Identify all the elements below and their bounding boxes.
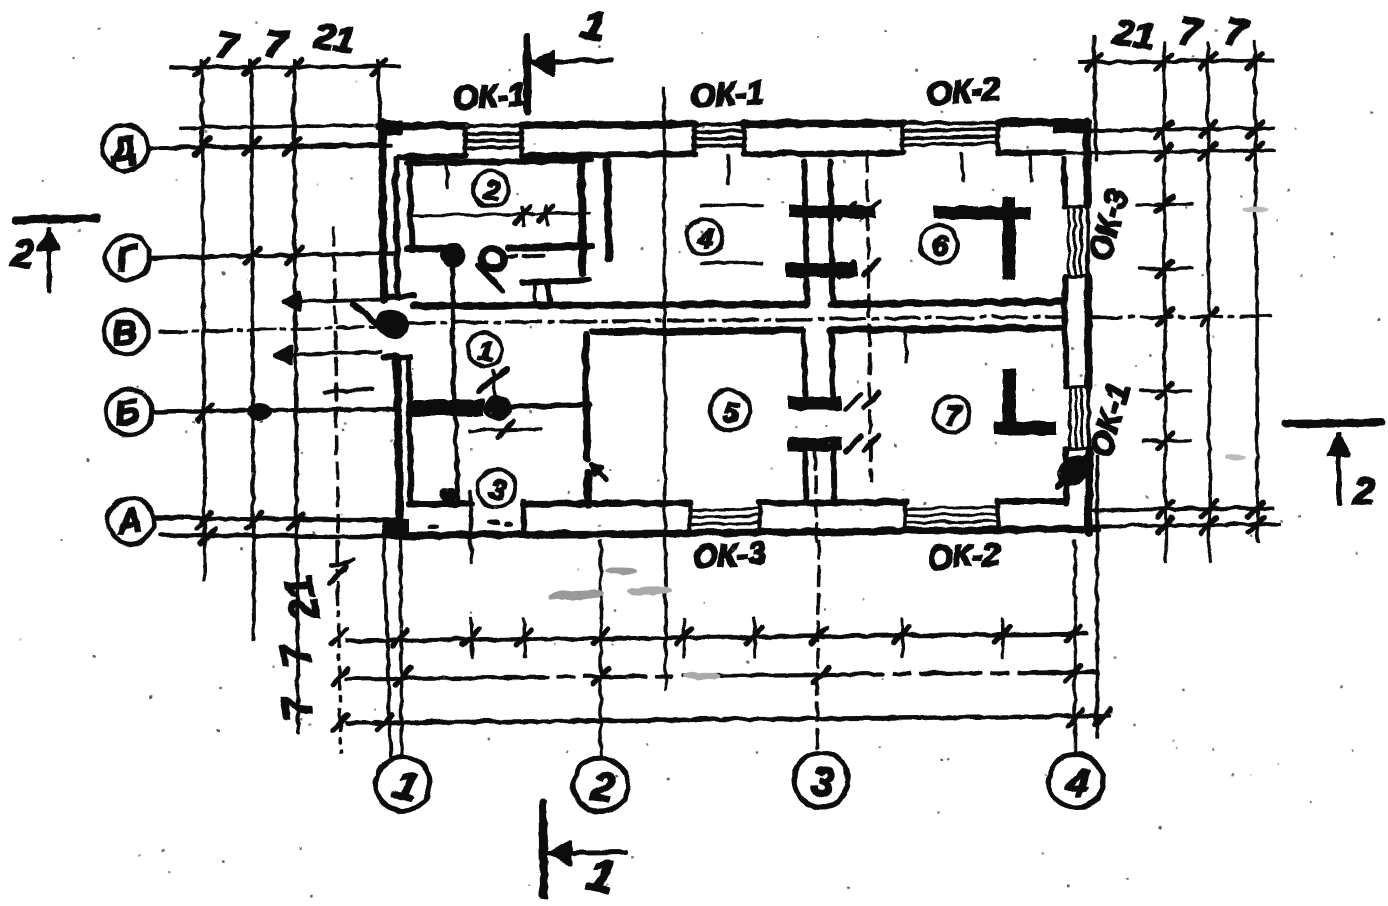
extension stub x=470 through bottom wall [469, 490, 471, 562]
rooms 5/7 flue bar 1 [788, 396, 840, 409]
bottom-left chain ticks [329, 566, 344, 581]
svg-text:А: А [113, 501, 144, 542]
tick rows right partition lower [844, 393, 859, 408]
building top-left corner block [377, 120, 401, 134]
entry door leaf (diagonal) [352, 303, 382, 329]
interior dim leader left y=352 [274, 351, 380, 354]
room 1 door hinge blob [484, 395, 510, 419]
ticks on row Г leader [243, 247, 258, 262]
bottom inner wall face segments [408, 500, 470, 506]
rooms 4/6 flue bar 2 [786, 262, 856, 276]
room 2 door leaf (diagonal) [478, 265, 502, 290]
room 2 left inner wall [409, 163, 411, 250]
left inner wall face lower [408, 358, 410, 500]
extension line x=201 [201, 60, 204, 578]
stub wall below room 2 [522, 279, 588, 281]
axis circle 3 (bottom) [793, 752, 847, 806]
svg-text:ОК-1: ОК-1 [689, 73, 764, 114]
room label 2 (circled) [472, 170, 508, 206]
svg-text:Б: Б [113, 392, 141, 432]
section mark 2 left (cut line, arrow, label) [15, 217, 96, 219]
left outer wall face lower [396, 356, 399, 533]
room label 3 (circled) [477, 468, 515, 506]
room label 7 (circled) [933, 395, 969, 431]
room 3 top wall right part [510, 404, 588, 406]
svg-text:ОК-2: ОК-2 [925, 70, 1001, 111]
column axis 3 vertical wire (dashed) [816, 540, 818, 751]
room 1 door leaf (diagonal) [478, 368, 506, 390]
top outer wall face segments (thick between windows) [378, 121, 465, 129]
axis row Д leader wire [147, 144, 390, 147]
axis circle В [103, 309, 147, 353]
window ОК-3 right (y 205-276) glazing lines [1067, 206, 1069, 276]
axis circle Г [105, 235, 149, 279]
bottom wall blob near room 3 [440, 487, 456, 501]
rooms 4/6 flue bar 1 [788, 205, 874, 217]
entry opening top jamb stub [384, 295, 413, 296]
window ОК-1 right (y 385-448) glazing lines [1068, 386, 1070, 448]
dash-dot extension line x=335 [333, 228, 337, 545]
right outer wall face segments [1083, 120, 1091, 205]
window ОК-2 bottom (x 905-997) glazing lines [903, 506, 998, 508]
right leader y=440 (window OK-1 bottom edge) [1142, 439, 1190, 442]
middle wall upper face segments [413, 303, 805, 305]
column axis 2 vertical wire [599, 540, 602, 757]
stub mark above chain [330, 560, 352, 566]
right inner wall face segments [1063, 158, 1064, 205]
svg-text:ОК-1: ОК-1 [451, 75, 526, 116]
upper horizontal line y=125 left of building [180, 124, 380, 127]
window ОК-1 second top (x 694-743) glazing lines [692, 130, 744, 131]
column axis 4 vertical wire [1073, 540, 1076, 754]
rooms 5/7 flue bar 2 [788, 437, 840, 450]
axis circle 1 (bottom) [375, 756, 429, 810]
interior stub room 4 top [727, 154, 728, 182]
interior stub room 6 top [961, 152, 962, 180]
interior dim leader left y=299 [283, 298, 380, 301]
room 1 / room 3 wall (heavy) [411, 399, 483, 415]
bottom dim line 3 (y=719) [346, 715, 1108, 722]
left outer wall face upper [381, 122, 383, 298]
svg-text:2: 2 [1350, 469, 1375, 512]
svg-text:ОК-2: ОК-2 [926, 535, 1002, 576]
stove room 7 (L shape) [1002, 368, 1014, 434]
svg-text:ОК-3: ОК-3 [691, 534, 767, 575]
interior dim stubs room 4/6 row [700, 204, 760, 205]
axis circle Д (row Д, top left) [101, 124, 147, 170]
axis row А extension right (double wire) [1090, 507, 1272, 509]
rooms 4/6 partition right wire [829, 160, 830, 205]
axis row В extension right (dash-dot) [1090, 315, 1272, 317]
rooms 4/6 partition left wire [803, 160, 804, 205]
axis row Б leader wire [151, 408, 396, 411]
svg-text:21: 21 [1110, 9, 1156, 55]
scan smears [547, 206, 1267, 679]
svg-text:1: 1 [476, 334, 495, 366]
axis 3 interior wire (dash, x=868) [866, 150, 870, 480]
interior dim leader room 2 (y=214) [413, 212, 588, 215]
tick rows right partition upper [838, 202, 853, 217]
right leader y=268 (window OK-3 bottom edge) [1138, 267, 1190, 270]
bottom-left outer corner block [381, 518, 409, 538]
axis 2 interior wire (x=665) [663, 88, 665, 688]
hall vertical partition (x 450) [451, 252, 453, 399]
extension of building left wall above (x=378) [377, 60, 379, 124]
middle wall lower face segments [592, 329, 800, 331]
interior stub above room 7 door [905, 333, 906, 360]
axis row Г leader wire [149, 252, 392, 257]
middle wall axis В inside building (dash-dot) [398, 316, 1062, 322]
corner blob bottom-right with arrow [1051, 449, 1094, 491]
closet partition wall (x 603-613) [606, 161, 608, 258]
room 2 inner top wall [406, 160, 590, 162]
ticks on row В extension [1156, 308, 1171, 323]
rooms 5/7 partition lower wires [804, 450, 805, 502]
room label 5 (circled) [709, 389, 749, 429]
axis 3 lower interior wire (dash) [814, 452, 816, 540]
extension line x=1254 [1254, 40, 1257, 540]
svg-text:21: 21 [310, 13, 356, 59]
extension line x=1093 [1093, 36, 1095, 160]
axis circle 2 (bottom) [573, 757, 627, 811]
left inner wall face upper [395, 158, 397, 296]
entry door hinge blob [371, 304, 411, 341]
axis row В leader wire (dash-dot) [160, 326, 378, 331]
tick on row Б leader [246, 403, 270, 419]
svg-text:2: 2 [8, 230, 34, 276]
room 2 / hall partition wall (x 578-588) [580, 158, 582, 272]
column axis 1 vertical wire [383, 540, 390, 755]
ticks on top band extension [1155, 121, 1170, 136]
top band extension right of building (double wire) [1066, 127, 1272, 130]
bottom outer wall face [396, 528, 1096, 535]
entry opening bottom jamb stub [383, 356, 410, 357]
bottom dim line 2 (y=675, partly dashed) [346, 671, 1096, 678]
extension line x=1207 [1207, 42, 1209, 560]
room label 1 (circled) [467, 332, 501, 366]
bottom wall jamb x=522 [522, 500, 523, 532]
bottom-left chain line (dashed vertical x=339) [336, 540, 340, 752]
bottom dim line 1 (y=637) [346, 633, 1085, 640]
room 5 door swing arrow [590, 463, 606, 479]
rooms 4/6 partition mid wires [804, 217, 805, 262]
window ОК-1 top (x 465-521) glazing lines [463, 132, 521, 133]
window ОК-2 top (x 902-997) glazing lines [900, 128, 998, 130]
hall interior small dim cross [533, 282, 535, 303]
right leader y=390 (window OK-1 top edge) [1140, 389, 1190, 392]
interior dim leader left y=390 [325, 389, 371, 391]
column axis 4 secondary wire [1095, 455, 1098, 737]
svg-text:В: В [110, 312, 138, 352]
axis row Г dash inside building [495, 254, 548, 256]
section mark 2 right (cut line, arrow, label) [1285, 421, 1380, 423]
right leader y=203 (window OK-3 top edge) [1136, 203, 1190, 204]
svg-text:21: 21 [276, 572, 327, 624]
dim ticks top-left chain [193, 58, 208, 73]
dim chain top-left baseline [170, 65, 398, 67]
extension line x=1163 [1163, 42, 1165, 560]
axis circle Б [105, 388, 151, 434]
section mark 1 top (cut line, arrow, label) [523, 36, 530, 111]
stove room 6 (T shape) [933, 206, 1030, 218]
building top-right corner block [1052, 118, 1090, 132]
room 3 inner partition below wall [455, 417, 457, 500]
extension line x=293 [293, 60, 297, 732]
rooms 4/6 partition lower wires [805, 276, 806, 303]
hall / room 5 partition wall (x 582-592) [585, 334, 586, 457]
hall interior vertical dim stub [493, 370, 494, 398]
dim chain top-right baseline [1078, 59, 1272, 62]
axis row А leader wires (double) [153, 517, 396, 519]
room 2 door hinge blob A [440, 242, 464, 266]
room 2 door hinge blob B with ring [478, 245, 506, 271]
smudge dots on bottom wall [486, 519, 498, 524]
axis circle А (bottom left) [107, 497, 153, 543]
section mark 1 bottom (cut line, arrow, label) [542, 801, 543, 895]
dim ticks top-right chain [1085, 53, 1100, 68]
extension stubs crossing bottom dim line 1 [470, 618, 471, 656]
interior stub room 2 top [446, 158, 447, 186]
extension line x=250 [250, 60, 253, 638]
room label 6 (circled) [919, 224, 957, 262]
top inner wall face segments [398, 155, 465, 156]
room 2 bottom wall right part [508, 245, 590, 247]
axis circle 4 (bottom) [1048, 753, 1102, 807]
rooms 5/7 partition upper wires [803, 331, 804, 396]
ticks on row А extension [1156, 500, 1171, 515]
window ОК-3 bottom (x 689-759) glazing lines [688, 508, 760, 509]
room label 4 (circled) [686, 218, 722, 254]
ticks on row А leader [196, 511, 211, 526]
room 2 bottom wall left part [406, 247, 446, 248]
ticks on row Д leader [193, 138, 208, 153]
column axis 1 secondary wire [398, 365, 401, 755]
